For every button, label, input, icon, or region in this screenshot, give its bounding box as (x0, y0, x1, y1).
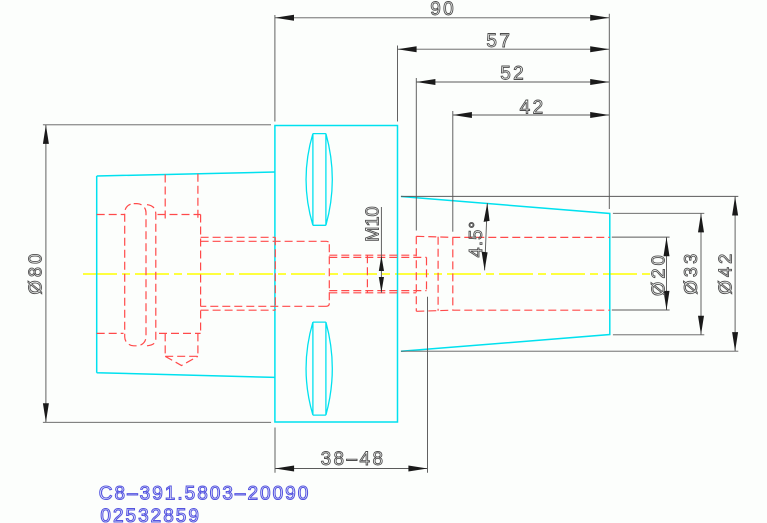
ext line bore left up (415, 78, 417, 231)
hidden: pill slot (red dashed rounded rect) (125, 204, 146, 346)
upper lens / ball feature (cyan) (306, 134, 332, 226)
lower lens / ball feature (cyan) (306, 322, 332, 415)
svg-text:Ø80: Ø80 (25, 251, 45, 295)
dimension extension lines (dark) (43, 14, 738, 473)
arrows 90 (275, 15, 294, 21)
hidden: top set-screw hole verticals (red dashed) (165, 174, 198, 220)
hidden: counterbore row A (red dashed) (201, 237, 276, 310)
ext lines 38-48 (275, 297, 428, 473)
svg-text:52: 52 (500, 64, 526, 85)
arrows M10 (379, 256, 384, 271)
svg-text:C8–391.5803–20090: C8–391.5803–20090 (99, 484, 311, 505)
arrows 4.5deg (484, 203, 490, 222)
ext lines dia42 (401, 196, 738, 351)
ext line flange left up (274, 15, 276, 122)
dim line dia42 (734, 196, 736, 351)
flange rectangle (cyan) (275, 126, 398, 423)
arrows 38-48 (275, 466, 294, 472)
left body trapezoid (cyan shank) (97, 172, 275, 377)
hidden: counterbore row B (red dashed) (201, 241, 330, 306)
ext line flange right up (397, 46, 399, 122)
leader 4.5deg (485, 203, 488, 270)
hidden: second pill outline (red dashed) (147, 205, 156, 346)
title texts (blue) (99, 484, 311, 523)
svg-text:Ø42: Ø42 (716, 251, 736, 295)
arrows dia42 (732, 196, 738, 215)
dim line dia20 (666, 237, 668, 310)
arrows 52 (416, 79, 435, 85)
arrowheads (dark filled) (43, 15, 738, 472)
svg-text:Ø33: Ø33 (681, 251, 701, 295)
svg-text:42: 42 (520, 97, 546, 118)
dimension lines (dark) (46, 18, 735, 469)
dim line 42 (453, 114, 610, 116)
hidden: internal bore of shank (red dashed) (97, 215, 201, 334)
cone body (cyan) (401, 197, 610, 352)
hidden: bottom screw hole with drill point (red dashed) (165, 333, 198, 365)
svg-text:M10: M10 (362, 206, 382, 241)
dim line 90 (275, 17, 609, 19)
dim line dia33 (700, 213, 702, 334)
arrows dia33 (698, 213, 704, 232)
dim line 57 (398, 48, 610, 50)
ext line cone right up (608, 14, 610, 209)
svg-text:90: 90 (430, 0, 456, 20)
hidden: bore through cone (red dashed) (416, 236, 610, 311)
leader M10 (380, 207, 382, 293)
arrows dia20 (664, 237, 670, 256)
ext lines dia20 (612, 237, 670, 310)
svg-text:4.5°: 4.5° (466, 220, 486, 257)
arrows 42 (453, 112, 472, 118)
hidden: M10 thread lines (red dashed) (329, 255, 426, 293)
svg-text:02532859: 02532859 (100, 506, 201, 523)
ext lines dia80 (43, 125, 271, 423)
svg-text:57: 57 (486, 31, 512, 52)
dim line 38-48 (275, 468, 428, 470)
svg-text:38–48: 38–48 (321, 449, 386, 470)
svg-text:Ø20: Ø20 (649, 252, 669, 296)
dim line 52 (416, 81, 609, 83)
ext line bore step up (452, 111, 454, 232)
ext lines dia33 (613, 213, 704, 334)
centerline (yellow) (83, 273, 650, 275)
dim line dia80 (45, 125, 47, 423)
arrows dia80 (43, 125, 49, 144)
arrows 57 (398, 46, 417, 52)
